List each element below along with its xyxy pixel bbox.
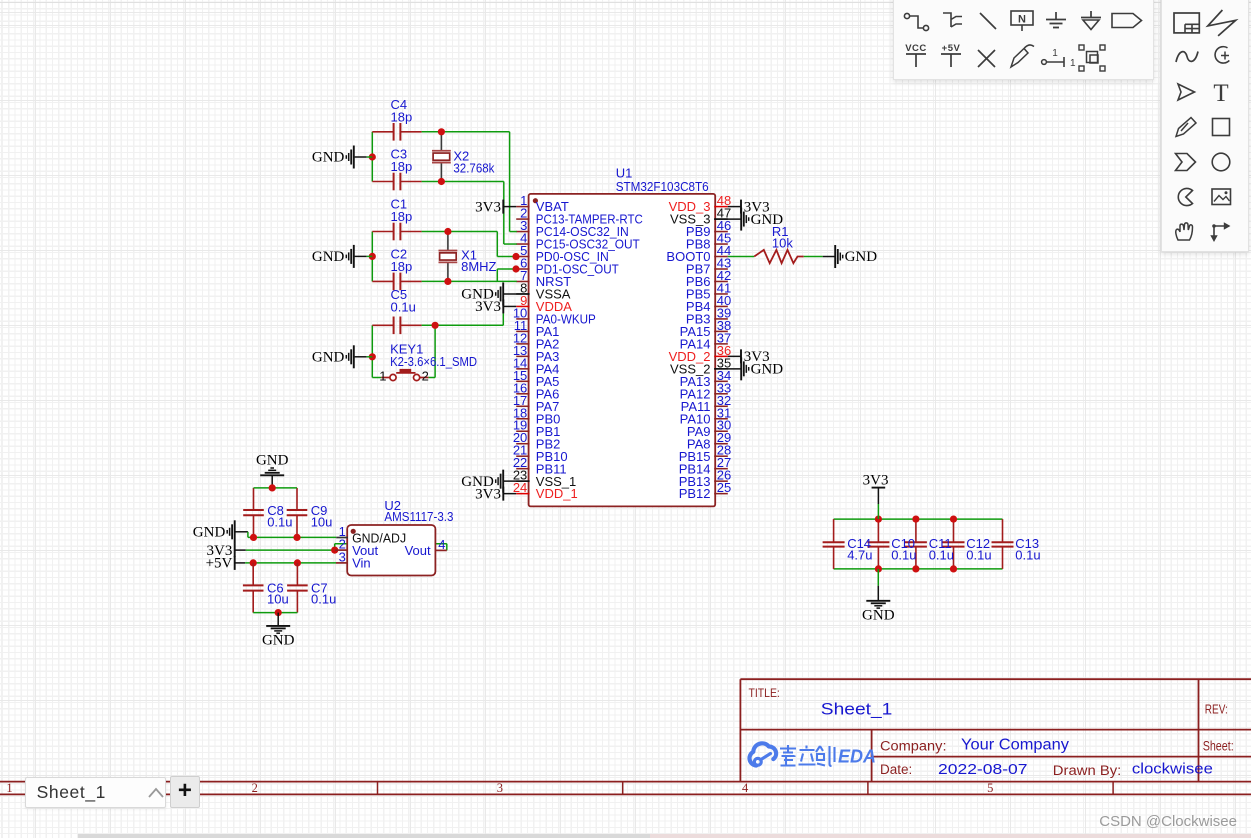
svg-text:+5V: +5V (206, 556, 233, 572)
svg-text:3: 3 (497, 781, 503, 795)
svg-text:3V3: 3V3 (475, 486, 501, 502)
svg-text:Vin: Vin (352, 555, 371, 570)
svg-text:10u: 10u (267, 592, 289, 607)
svg-text:0.1u: 0.1u (966, 547, 991, 562)
svg-text:0.1u: 0.1u (929, 547, 954, 562)
svg-text:1: 1 (379, 369, 386, 384)
svg-text:3: 3 (339, 549, 346, 564)
svg-text:Vout: Vout (405, 543, 431, 558)
svg-text:0.1u: 0.1u (391, 300, 416, 315)
svg-text:+5V: +5V (942, 43, 961, 54)
svg-text:4: 4 (742, 781, 749, 795)
svg-text:Drawn By:: Drawn By: (1053, 763, 1122, 778)
svg-text:PB12: PB12 (679, 486, 711, 501)
svg-text:2: 2 (252, 781, 258, 795)
svg-text:2: 2 (422, 369, 429, 384)
svg-text:REV:: REV: (1205, 703, 1228, 717)
svg-text:clockwisee: clockwisee (1132, 761, 1213, 778)
svg-text:4.7u: 4.7u (847, 547, 872, 562)
svg-text:TITLE:: TITLE: (749, 686, 780, 700)
svg-text:N: N (1018, 14, 1026, 26)
svg-text:25: 25 (717, 480, 731, 495)
svg-text:1: 1 (6, 781, 12, 795)
svg-text:VCC: VCC (905, 43, 927, 54)
svg-text:T: T (1213, 80, 1228, 107)
svg-text:GND: GND (751, 362, 784, 378)
svg-text:1: 1 (1052, 48, 1058, 59)
svg-text:10u: 10u (311, 515, 333, 530)
svg-text:AMS1117-3.3: AMS1117-3.3 (384, 509, 453, 524)
svg-text:1: 1 (1070, 58, 1076, 69)
svg-text:Sheet:: Sheet: (1203, 739, 1234, 754)
svg-text:5: 5 (987, 781, 993, 795)
svg-text:3V3: 3V3 (863, 473, 889, 489)
svg-text:Date:: Date: (880, 762, 912, 777)
svg-text:EDA: EDA (838, 747, 876, 767)
svg-text:GND: GND (262, 632, 295, 648)
svg-text:Company:: Company: (880, 739, 947, 754)
svg-text:Your Company: Your Company (961, 737, 1069, 754)
svg-text:VDD_1: VDD_1 (536, 486, 578, 501)
svg-text:0.1u: 0.1u (891, 547, 916, 562)
svg-text:GND: GND (862, 607, 895, 623)
svg-text:GND: GND (256, 452, 289, 468)
svg-text:4: 4 (438, 537, 445, 552)
svg-text:0.1u: 0.1u (311, 592, 336, 607)
svg-text:K2-3.6×6.1_SMD: K2-3.6×6.1_SMD (390, 354, 477, 369)
svg-text:3V3: 3V3 (475, 299, 501, 315)
svg-text:Sheet_1: Sheet_1 (821, 700, 893, 719)
svg-text:GND: GND (193, 525, 226, 541)
svg-text:GND: GND (312, 350, 345, 366)
svg-text:0.1u: 0.1u (267, 515, 292, 530)
svg-text:0.1u: 0.1u (1015, 547, 1040, 562)
svg-text:2022-08-07: 2022-08-07 (938, 761, 1028, 778)
